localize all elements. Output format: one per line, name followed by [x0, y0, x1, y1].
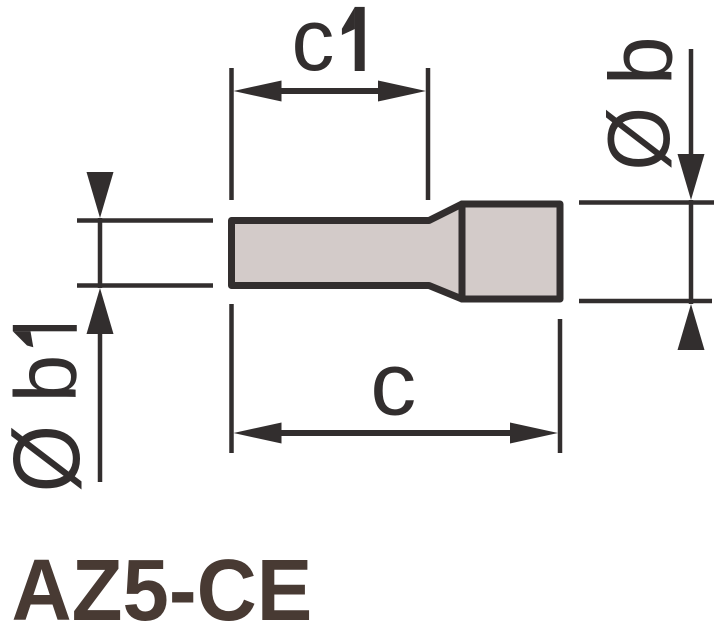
- label c1 : digit 1 stem: [355, 7, 365, 71]
- svg-text:c: c: [370, 335, 416, 434]
- dimension line b1 between extension lines: [98, 218, 103, 288]
- dimension line c: [270, 430, 520, 436]
- extension line b top: [579, 200, 714, 205]
- dimension line c1: [270, 88, 390, 94]
- svg-text:b: b: [591, 36, 691, 85]
- svg-text:b: b: [0, 355, 95, 403]
- arrowhead b1 down: [87, 172, 114, 218]
- svg-text:Ø: Ø: [590, 107, 688, 171]
- arrowhead b up: [678, 304, 705, 350]
- svg-text:Ø: Ø: [0, 425, 100, 493]
- svg-text:c: c: [292, 0, 335, 89]
- leader line b1: [98, 330, 103, 482]
- arrowhead c right: [510, 423, 558, 444]
- extension line c left: [229, 304, 234, 453]
- extension line c1 left: [229, 68, 234, 200]
- svg-text:AZ5-CE: AZ5-CE: [12, 542, 313, 629]
- label diameter b1 : digit 1 stem (rotated): [13, 325, 77, 331]
- ferrule body outline: [232, 204, 561, 299]
- arrowhead b down: [678, 154, 705, 200]
- extension line c right: [558, 319, 563, 453]
- extension line b bottom: [579, 299, 712, 304]
- extension line c1 right: [426, 68, 431, 200]
- extension line b1 bottom: [77, 283, 213, 288]
- label diameter b1 : digit 1 flag (rotated): [13, 331, 34, 347]
- arrowhead b1 up: [87, 288, 114, 334]
- arrowhead c1 left: [234, 81, 282, 102]
- extension line b1 top: [77, 218, 213, 223]
- leader line b: [689, 49, 694, 160]
- dimension line b between extension lines: [689, 200, 694, 304]
- arrowhead c left: [234, 423, 282, 444]
- arrowhead c1 right: [378, 81, 426, 102]
- label c1 : digit 1 flag: [342, 7, 355, 35]
- ferrule collar left edge: [459, 204, 466, 299]
